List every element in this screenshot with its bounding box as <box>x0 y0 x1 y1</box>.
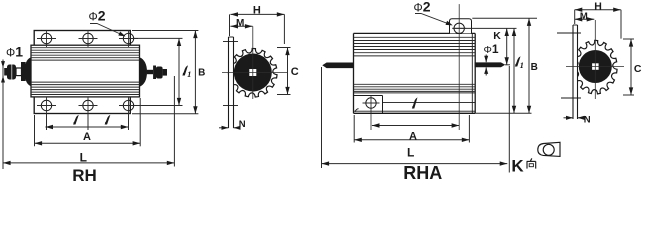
svg-text:N: N <box>584 115 591 126</box>
svg-text:C: C <box>291 66 299 78</box>
svg-text:H: H <box>594 0 602 12</box>
dimension K (tab hole to lead axis) <box>453 28 517 64</box>
dimension H RHA side view <box>575 0 621 38</box>
label PHI2 with leader to tab hole (RHA) <box>414 0 453 25</box>
right wire lead <box>475 62 506 67</box>
center lines <box>222 72 288 74</box>
svg-text:M: M <box>236 18 244 29</box>
dimension l1 (hole row spacing) right of RH view <box>134 38 191 105</box>
bottom-left mounting tab <box>354 95 383 97</box>
left body end cap <box>25 57 31 86</box>
dimension M RHA side view <box>575 11 595 22</box>
dimension l (tab hole spacing) RHA <box>372 123 459 127</box>
svg-text:Φ2: Φ2 <box>89 8 106 24</box>
fins <box>354 36 476 38</box>
svg-text:1: 1 <box>187 69 191 79</box>
dimension B RHA view <box>472 18 538 113</box>
dimension C RHA side view <box>623 39 642 95</box>
svg-text:B: B <box>531 62 538 73</box>
svg-text:M: M <box>580 11 588 22</box>
RH resistor front view <box>4 30 167 130</box>
label PHI1 with diameter arrows on left stud <box>1 44 23 170</box>
svg-text:B: B <box>198 68 205 79</box>
svg-text:K: K <box>511 157 524 176</box>
svg-text:L: L <box>80 150 87 164</box>
dimension M RH side view <box>230 18 252 29</box>
svg-text:L: L <box>407 145 414 159</box>
right body end cap <box>140 57 148 87</box>
dimension l1 RHA view <box>512 28 524 113</box>
RHA resistor side view <box>557 20 624 119</box>
dimension B (flange height) RH view <box>132 31 205 114</box>
left wire lead <box>322 63 353 69</box>
RH resistor side view <box>222 26 288 128</box>
svg-text:A: A <box>409 130 417 142</box>
dimension A RH view <box>35 98 141 146</box>
mounting holes top row <box>41 33 51 43</box>
svg-text:K: K <box>493 30 501 42</box>
svg-text:RH: RH <box>72 166 97 181</box>
mounting flange plate <box>34 31 130 114</box>
RHA resistor front view <box>322 4 505 130</box>
svg-text:Φ1: Φ1 <box>484 42 499 56</box>
dimension N RH side view <box>219 119 246 130</box>
dimension L RH view <box>3 76 174 167</box>
svg-text:Φ2: Φ2 <box>414 0 431 15</box>
flange bar profile <box>229 37 233 105</box>
label PHI2 with leader to top right hole <box>89 8 126 37</box>
label PHI1 with diameter arrows on right lead <box>484 42 499 76</box>
dimension A RHA view <box>354 115 469 143</box>
svg-text:A: A <box>83 131 91 143</box>
svg-text:RHA: RHA <box>403 163 442 181</box>
left terminal stud <box>4 68 9 76</box>
core black circle <box>234 54 272 92</box>
right terminal stud <box>147 70 153 74</box>
dimension l l (hole spacing) below flange <box>45 116 128 129</box>
label l on body <box>413 99 417 108</box>
mounting holes bottom row <box>41 100 51 110</box>
K direction label <box>511 157 535 176</box>
finned aluminium body <box>31 45 140 97</box>
svg-text:C: C <box>634 63 642 75</box>
dimension C RH side view <box>277 48 299 95</box>
dimension L RHA view <box>322 66 510 173</box>
top-right mounting tab <box>450 19 472 34</box>
finned circular body profile <box>228 49 277 97</box>
K direction detail view of tab <box>538 142 560 156</box>
body outline <box>354 33 476 113</box>
svg-text:H: H <box>253 5 261 17</box>
svg-text:1: 1 <box>520 60 524 70</box>
svg-text:Φ1: Φ1 <box>6 44 23 60</box>
svg-text:N: N <box>239 119 246 130</box>
dimension N RHA side view <box>564 115 591 126</box>
dimension H RH side view <box>230 5 285 44</box>
